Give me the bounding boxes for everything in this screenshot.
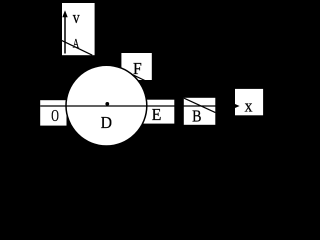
- svg-text:O: O: [51, 107, 59, 125]
- svg-text:x: x: [245, 98, 253, 115]
- svg-text:A: A: [73, 37, 79, 51]
- label box E (right strip on axis): [144, 100, 175, 124]
- svg-text:E: E: [152, 106, 162, 124]
- svg-text:D: D: [101, 112, 113, 132]
- svg-text:B: B: [192, 107, 201, 125]
- circle D (cylinder): [66, 65, 147, 146]
- label box O (left strip on axis): [40, 100, 66, 125]
- v-arrow head: [62, 10, 67, 17]
- v-arrow stem: [64, 16, 66, 54]
- label box x (axis arrow panel): [235, 89, 263, 115]
- wire x-axis: [40, 105, 236, 107]
- wire diagonal through A box: [62, 40, 93, 55]
- wire diagonal through B box: [184, 98, 216, 113]
- label box B: [184, 98, 216, 125]
- wire F leader line to circle edge: [131, 74, 146, 81]
- x-axis arrowhead: [234, 104, 239, 109]
- label box A (top-left white panel): [62, 3, 95, 55]
- svg-text:v: v: [73, 9, 80, 27]
- label box F: [121, 53, 151, 80]
- svg-text:F: F: [133, 61, 142, 78]
- center dot of circle: [105, 102, 109, 106]
